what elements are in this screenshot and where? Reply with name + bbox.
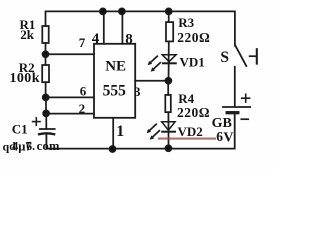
svg-text:C1: C1 — [12, 122, 28, 137]
wire rail to R3 — [168, 11, 170, 22]
wire pin 2 — [46, 113, 94, 115]
wire pin 7 — [46, 53, 95, 55]
diode VD2 — [162, 122, 175, 149]
label R2 — [10, 60, 40, 86]
node pin8 junction — [119, 8, 125, 14]
wire node B to node C — [45, 97, 47, 113]
label R3 — [177, 15, 210, 45]
svg-text:2: 2 — [79, 101, 86, 116]
capacitor C1 — [39, 113, 55, 134]
svg-text:S: S — [220, 49, 229, 66]
svg-text:220Ω: 220Ω — [177, 105, 210, 120]
svg-text:220Ω: 220Ω — [177, 30, 210, 45]
battery GB plates — [223, 107, 250, 113]
switch S blade — [235, 45, 246, 66]
op-amp U1 IC NE555 body — [94, 44, 135, 118]
wire R4 to VD2 — [167, 112, 169, 132]
svg-text:NE: NE — [105, 59, 126, 75]
svg-text:8: 8 — [125, 32, 133, 48]
LED VD1 light arrows — [151, 56, 161, 69]
node R3 top junction — [166, 8, 172, 14]
wire pin 8 — [121, 11, 123, 43]
svg-text:4μ7: 4μ7 — [12, 140, 32, 154]
wire pin 4 — [103, 11, 105, 43]
svg-text:6: 6 — [80, 83, 87, 98]
label battery 6V — [216, 129, 233, 146]
wire pin 1 — [112, 118, 114, 149]
resistor R1 — [42, 26, 48, 43]
LED VD2 light arrows — [150, 124, 160, 137]
wire node A to R2 — [45, 54, 47, 65]
battery minus sign — [241, 118, 248, 120]
svg-text:com: com — [37, 139, 60, 153]
node D pin3 junction — [165, 78, 171, 84]
svg-text:R3: R3 — [178, 15, 194, 30]
label R4 — [177, 91, 210, 120]
svg-text:3: 3 — [134, 84, 141, 99]
node pin4 junction — [100, 8, 106, 14]
resistor R2 — [42, 65, 49, 82]
capacitor C1 plus sign — [33, 118, 40, 125]
svg-text:1: 1 — [116, 123, 124, 140]
node A — [43, 51, 49, 57]
svg-text:555: 555 — [103, 83, 127, 100]
svg-text:R4: R4 — [178, 91, 194, 106]
svg-text:4: 4 — [92, 31, 100, 47]
diode VD1 — [162, 55, 176, 81]
wire switch to battery — [234, 67, 236, 107]
node VD2 ground junction — [165, 145, 171, 151]
label IC NE 555 — [103, 59, 127, 100]
node pin1 ground junction — [110, 146, 116, 152]
svg-text:6: 6 — [216, 129, 223, 144]
wire R3 to VD1 — [168, 41, 170, 63]
node B — [43, 94, 49, 100]
watermark red underline — [158, 138, 216, 140]
wire pin 3 — [135, 80, 168, 82]
svg-text:2k: 2k — [20, 27, 35, 42]
battery plus sign — [242, 94, 250, 102]
label R1 — [20, 17, 36, 42]
svg-text:VD1: VD1 — [180, 55, 205, 70]
switch S contact mark — [250, 49, 257, 63]
svg-text:VD2: VD2 — [178, 124, 203, 139]
svg-text:100k: 100k — [10, 71, 40, 86]
resistor R3 — [166, 22, 173, 41]
wire bottom rail — [46, 114, 234, 149]
resistor R4 — [165, 95, 171, 112]
svg-text:7: 7 — [79, 35, 86, 50]
wire node D to R4 — [167, 81, 169, 95]
wire R2 to node B — [45, 82, 47, 97]
wire top rail — [46, 11, 235, 45]
wire pin 6 — [46, 96, 94, 98]
svg-text:V: V — [223, 130, 233, 145]
wire R1 to node A — [45, 43, 47, 54]
watermark qdz6.com text — [3, 139, 60, 153]
node C — [43, 110, 49, 116]
